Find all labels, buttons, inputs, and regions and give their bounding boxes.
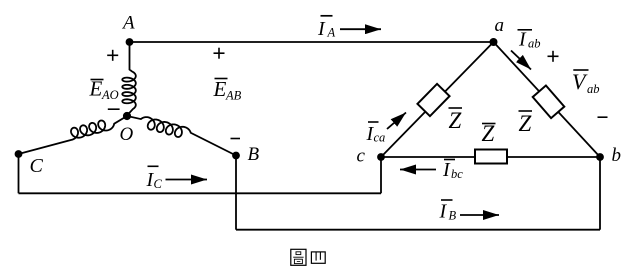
- label Z on a-b box: [519, 111, 533, 136]
- impedance Z box on c-b edge: [475, 150, 507, 164]
- arrow I_ca: [387, 113, 406, 130]
- node C: [15, 150, 23, 158]
- svg-text:B: B: [449, 209, 457, 223]
- plus sign for E_AB: [214, 48, 225, 59]
- node A: [126, 38, 134, 46]
- svg-text:ab: ab: [587, 82, 600, 96]
- svg-text:I: I: [518, 29, 527, 51]
- label E_AO: [89, 77, 119, 103]
- svg-text:O: O: [120, 124, 134, 145]
- label I_ca with overline: [366, 122, 386, 145]
- wire bottom B to b: [236, 229, 600, 231]
- wire C down: [18, 154, 20, 193]
- svg-text:A: A: [327, 26, 336, 40]
- label I_A with overline: [317, 16, 336, 40]
- wire A to a (top horizontal): [130, 41, 494, 43]
- node a: [490, 38, 498, 46]
- plus sign for V_ab: [548, 51, 559, 62]
- svg-text:B: B: [248, 144, 260, 165]
- node B: [232, 152, 240, 160]
- winding phase B (O to B coil with wire to node B): [127, 116, 236, 156]
- caption glyph 四: [311, 252, 325, 263]
- minus sign for V_ab: [598, 116, 608, 118]
- node b: [596, 153, 604, 161]
- impedance Z box on a-b edge: [533, 85, 565, 118]
- winding E_AO (phase A coil from node A down to node O): [122, 41, 136, 116]
- svg-text:Z: Z: [482, 121, 495, 146]
- svg-text:I: I: [442, 159, 451, 181]
- label I_ab with overline: [518, 29, 541, 51]
- wire B down: [235, 156, 237, 230]
- svg-text:b: b: [612, 145, 622, 166]
- wire c to b (delta edge): [381, 156, 600, 158]
- svg-text:I: I: [317, 18, 326, 40]
- svg-text:a: a: [495, 15, 505, 36]
- arrow I_B: [460, 214, 499, 216]
- wire a to c (delta edge): [381, 42, 494, 157]
- svg-text:I: I: [439, 201, 448, 223]
- minus sign above B: [231, 138, 241, 140]
- arrow I_bc: [400, 169, 436, 171]
- wire b down: [599, 157, 601, 230]
- arrow I_C: [166, 179, 208, 181]
- label Z on c-b box: [482, 121, 496, 146]
- arrow I_ab: [511, 51, 531, 70]
- impedance Z box on a-c edge: [417, 84, 449, 116]
- svg-text:C: C: [30, 155, 44, 177]
- arrow I_A: [340, 28, 381, 30]
- label E_AB: [213, 77, 242, 103]
- svg-text:Z: Z: [449, 108, 462, 133]
- minus sign at A winding bottom: [108, 108, 120, 110]
- svg-text:bc: bc: [451, 167, 463, 181]
- svg-text:E: E: [89, 77, 103, 101]
- svg-text:A: A: [121, 13, 135, 34]
- wire c down: [380, 157, 382, 193]
- svg-text:AO: AO: [101, 88, 119, 102]
- plus sign at A winding: [107, 50, 118, 61]
- wire a to b (delta edge): [494, 42, 601, 157]
- svg-text:Z: Z: [519, 111, 532, 136]
- winding phase C (O to C coil with wire to node C): [19, 116, 128, 154]
- svg-text:ca: ca: [374, 131, 386, 145]
- node O: [123, 112, 131, 120]
- svg-text:C: C: [154, 177, 163, 191]
- label I_bc with overline: [442, 159, 463, 181]
- label I_B with overline: [439, 200, 457, 223]
- label V_ab: [572, 69, 600, 96]
- svg-text:c: c: [357, 146, 366, 167]
- svg-text:ab: ab: [528, 37, 541, 51]
- label Z on a-c box: [449, 108, 463, 133]
- wire bottom C to c: [19, 192, 382, 194]
- caption glyph 圖: [291, 249, 306, 265]
- label I_C with overline: [146, 166, 163, 191]
- node c: [377, 153, 385, 161]
- svg-text:AB: AB: [225, 89, 242, 103]
- svg-text:E: E: [213, 77, 227, 101]
